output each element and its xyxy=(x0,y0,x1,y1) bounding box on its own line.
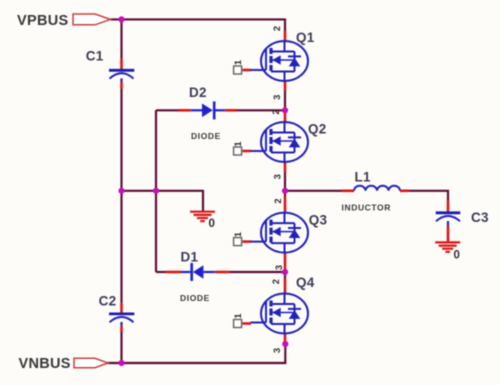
svg-text:INDUCTOR: INDUCTOR xyxy=(342,203,392,213)
wire Q1 source to node xyxy=(284,91,286,110)
junction at D2/Q1/Q2 node xyxy=(282,107,288,113)
gate terminal box Q1 xyxy=(234,66,242,74)
svg-text:3: 3 xyxy=(274,265,284,270)
wire bottom rail from VNBUS to Q4 source xyxy=(107,344,285,363)
junction diode rail / ground wire xyxy=(153,188,159,194)
wire D1 cathode segment xyxy=(156,271,166,273)
capacitor C3 xyxy=(436,200,461,241)
diode D1 xyxy=(166,263,230,281)
diode D2 xyxy=(179,101,238,119)
wire top rail from VPBUS to Q1 drain xyxy=(111,19,286,30)
ground 0 at mid wire xyxy=(190,212,215,221)
junction at VPBUS rail xyxy=(118,16,124,22)
svg-text:D2: D2 xyxy=(189,85,207,100)
port VNBUS xyxy=(74,358,108,367)
svg-text:1: 1 xyxy=(233,141,243,146)
wire L1 node to Q3 drain xyxy=(284,191,286,197)
wire L1 row left of coil xyxy=(285,190,342,192)
transistor Q4 xyxy=(243,279,309,345)
wire Q3 source to D1 node xyxy=(284,269,286,272)
wire left rail lower (C2 to VNBUS junction) xyxy=(120,332,122,363)
wire left rail middle (C1 to C2) xyxy=(120,89,122,303)
junction left rail / ground wire xyxy=(118,188,124,194)
svg-text:3: 3 xyxy=(272,348,282,353)
svg-text:0: 0 xyxy=(209,218,215,230)
svg-text:DIODE: DIODE xyxy=(191,131,221,141)
svg-text:VPBUS: VPBUS xyxy=(17,13,68,29)
inductor L1 xyxy=(342,186,409,191)
svg-text:1: 1 xyxy=(233,313,243,318)
svg-text:D1: D1 xyxy=(181,250,199,265)
svg-text:C2: C2 xyxy=(99,294,117,309)
svg-text:Q4: Q4 xyxy=(296,275,315,290)
svg-text:2: 2 xyxy=(271,279,281,284)
wire D1 anode to Q3/Q4 node xyxy=(230,271,285,273)
wire Q2 source to L1 node xyxy=(284,173,286,191)
ground 0 under C3 xyxy=(435,242,460,251)
svg-text:2: 2 xyxy=(272,26,282,31)
svg-text:Q2: Q2 xyxy=(308,122,327,137)
transistor Q1 xyxy=(243,31,309,92)
wire D2 cathode to Q1/Q2 node xyxy=(237,109,285,111)
wire L1 row right of coil to C3 xyxy=(409,191,448,201)
junction at VNBUS rail xyxy=(118,360,124,366)
transistor Q3 xyxy=(243,197,309,270)
svg-text:0: 0 xyxy=(454,250,460,262)
transistor Q2 xyxy=(243,112,309,173)
svg-text:3: 3 xyxy=(272,95,282,100)
junction Q4 source pin xyxy=(282,341,288,347)
svg-text:DIODE: DIODE xyxy=(180,293,210,303)
wire diode rail vertical D2 to D1 xyxy=(155,110,157,272)
junction Q2/Q3/L1 node xyxy=(282,188,288,194)
svg-text:Q1: Q1 xyxy=(296,30,315,45)
gate terminal box Q4 xyxy=(234,320,242,328)
capacitor C1 xyxy=(109,59,134,89)
svg-text:L1: L1 xyxy=(355,170,372,185)
wire left rail upper (VPBUS junction down to C1) xyxy=(120,19,122,58)
svg-text:VNBUS: VNBUS xyxy=(19,356,71,372)
gate terminal box Q2 xyxy=(234,147,242,155)
port VPBUS xyxy=(73,14,111,25)
svg-text:C1: C1 xyxy=(86,49,104,64)
junction D1/Q3/Q4 node xyxy=(282,269,288,275)
svg-text:1: 1 xyxy=(233,232,243,237)
svg-text:Q3: Q3 xyxy=(309,213,328,228)
gate terminal box Q3 xyxy=(234,238,242,246)
wire D1 node to Q4 drain xyxy=(284,272,286,279)
capacitor C2 xyxy=(109,303,134,332)
wire D2 anode segment xyxy=(156,109,179,111)
svg-text:C3: C3 xyxy=(471,210,489,225)
svg-text:3: 3 xyxy=(272,174,282,179)
svg-text:2: 2 xyxy=(273,198,283,203)
wire mid horizontal to ground 0 xyxy=(122,191,204,212)
svg-text:2: 2 xyxy=(271,109,281,114)
svg-text:1: 1 xyxy=(233,60,243,65)
